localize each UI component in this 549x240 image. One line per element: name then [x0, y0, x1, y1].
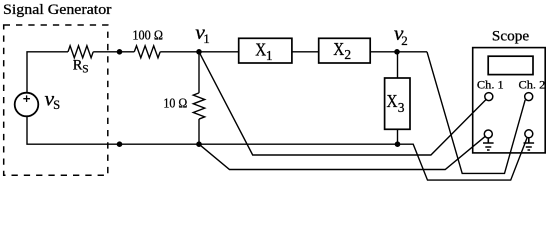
voltage source vS — [15, 93, 39, 117]
scope box — [473, 48, 546, 153]
svg-text:X: X — [255, 39, 266, 59]
Ch2 ground terminal — [525, 130, 533, 138]
resistor 10 ohm — [193, 93, 204, 119]
wire X3 to rail — [397, 129, 399, 144]
wire v2 to X3 — [397, 52, 399, 78]
wire ground rail to Ch1 ground — [199, 137, 485, 170]
Ch1 input terminal — [485, 93, 493, 101]
node 10ohm ground dot — [196, 141, 202, 147]
wire source bottom — [27, 116, 398, 144]
svg-text:10 Ω: 10 Ω — [163, 96, 187, 111]
plus sign of vS — [23, 95, 30, 102]
svg-text:Signal Generator: Signal Generator — [3, 2, 112, 18]
Ch2 input terminal — [525, 93, 533, 101]
svg-text:3: 3 — [398, 100, 405, 115]
wire source top — [27, 52, 68, 93]
node X3 ground dot — [395, 141, 401, 147]
block X3 — [385, 78, 410, 129]
scope screen — [488, 56, 533, 74]
resistor RS — [68, 46, 93, 58]
block X1 — [239, 38, 292, 63]
svg-text:Ch. 1: Ch. 1 — [477, 79, 504, 91]
Ch1 ground terminal — [484, 130, 492, 138]
svg-text:X: X — [387, 91, 398, 111]
svg-text:2: 2 — [401, 33, 408, 48]
wire X3 ground node to Ch2 ground — [398, 137, 528, 180]
svg-text:S: S — [53, 98, 60, 112]
wire 100ohm to v1 — [160, 51, 239, 53]
wire X1 to X2 — [292, 51, 319, 53]
node v1 dot — [196, 49, 202, 55]
svg-text:1: 1 — [266, 48, 273, 63]
Ch2 ground symbol — [524, 138, 535, 150]
svg-text:Scope: Scope — [492, 28, 530, 44]
block X2 — [319, 38, 371, 63]
svg-text:1: 1 — [203, 31, 210, 46]
Ch1 ground symbol — [483, 138, 494, 150]
svg-text:2: 2 — [344, 47, 351, 62]
svg-text:Ch. 2: Ch. 2 — [519, 79, 546, 91]
wire v2 to Ch2 input — [427, 52, 525, 174]
node v2 dot — [394, 49, 400, 55]
node top terminal dot — [117, 49, 123, 55]
svg-text:S: S — [82, 64, 88, 76]
signal generator dashed box — [4, 25, 108, 175]
wire v1 to Ch1 input — [199, 52, 486, 155]
svg-text:100 Ω: 100 Ω — [132, 28, 163, 43]
wire v1 to 10ohm — [198, 52, 200, 93]
resistor 100 ohm — [134, 46, 160, 58]
svg-text:X: X — [333, 39, 344, 59]
node bottom terminal dot — [117, 141, 123, 147]
wire X2 to v2 and corner — [370, 51, 427, 53]
wire RS to 100ohm — [93, 51, 134, 53]
wire 10ohm to rail — [198, 119, 200, 144]
